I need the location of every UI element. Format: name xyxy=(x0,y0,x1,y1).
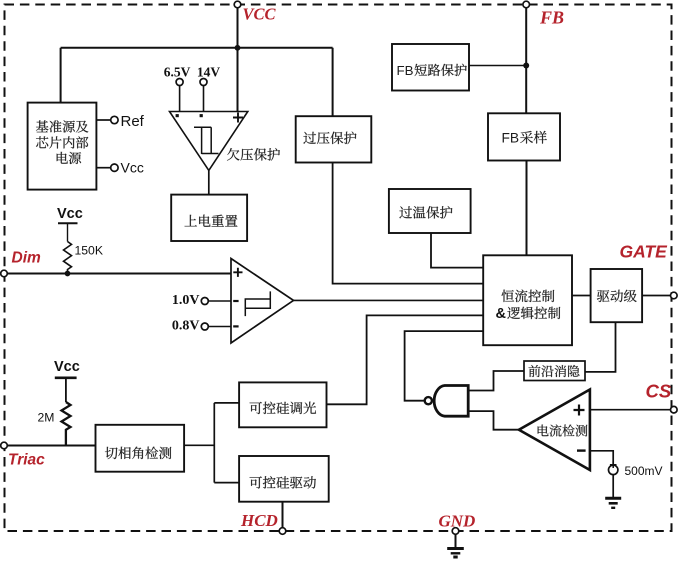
wire driver to blanking xyxy=(585,322,616,372)
pin FB xyxy=(523,1,530,8)
svg-text:&: & xyxy=(496,306,507,322)
block FB sampling xyxy=(488,113,560,160)
text leading edge blanking xyxy=(529,365,541,377)
block overvoltage protection xyxy=(296,116,372,162)
wire OTP to control xyxy=(431,233,483,268)
mark dim minus2 xyxy=(233,325,238,327)
wire GND stem xyxy=(455,534,457,547)
wire Vcc stub xyxy=(96,167,110,169)
junction Dim resistor xyxy=(65,271,71,277)
svg-text:FB: FB xyxy=(539,8,564,28)
svg-text:Vcc: Vcc xyxy=(57,206,83,222)
mark current sense minus xyxy=(577,449,586,451)
block constant-current and logic control xyxy=(483,255,572,345)
block driver stage xyxy=(591,269,643,322)
wire comparator minus to reference xyxy=(590,451,613,465)
svg-text:1.0V: 1.0V xyxy=(172,293,200,308)
wire 150K top xyxy=(67,223,69,241)
mark current sense plus xyxy=(574,405,585,416)
resistor R2 2M xyxy=(62,402,71,446)
text triac drive xyxy=(250,476,262,488)
svg-text:GATE: GATE xyxy=(620,242,669,262)
mark dim minus1 xyxy=(233,300,238,302)
svg-text:FB: FB xyxy=(397,63,414,78)
wire UVLO output xyxy=(208,170,210,194)
svg-text:Ref: Ref xyxy=(121,113,145,130)
comparator dim detection xyxy=(231,259,294,344)
symbol UVLO hysteresis xyxy=(194,127,219,154)
terminal 6.5V xyxy=(176,79,183,86)
pin Dim xyxy=(1,270,8,277)
svg-text:0.8V: 0.8V xyxy=(172,319,200,334)
terminal 1.0V xyxy=(201,298,208,305)
ground reference symbol xyxy=(605,497,621,500)
text overvoltage protection xyxy=(303,132,316,144)
mark UVLO input dot 1 xyxy=(176,114,179,117)
pin GATE xyxy=(671,292,678,299)
wire NAND output to control xyxy=(405,331,484,401)
wire 6.5V stem xyxy=(179,86,181,112)
wire comparator to CS xyxy=(590,409,671,411)
wire OVP to control xyxy=(333,163,484,284)
svg-text:GND: GND xyxy=(439,512,476,531)
resistor R1 150K xyxy=(64,242,72,274)
ground GND symbol xyxy=(447,547,464,550)
mark UVLO input dot 2 xyxy=(200,114,203,117)
wire Ref stub xyxy=(96,119,110,121)
pin CS xyxy=(671,406,678,413)
wire control to driver xyxy=(572,295,591,297)
wire blanking to NAND xyxy=(468,371,524,391)
wire driver to GATE xyxy=(642,295,670,297)
comparator U2 undervoltage lockout xyxy=(170,112,248,171)
block phase angle detection xyxy=(96,425,185,472)
wire 0.8V stub xyxy=(208,326,231,328)
supply bar 150K xyxy=(58,222,78,224)
wire Triac line xyxy=(7,445,95,447)
svg-text:2M: 2M xyxy=(38,411,55,425)
pin VCC xyxy=(234,1,241,8)
terminal Vcc xyxy=(111,164,118,171)
wire FB vertical xyxy=(525,5,527,114)
block power-on reset xyxy=(171,195,247,241)
bubble NAND output xyxy=(425,397,432,404)
wire source to ground xyxy=(612,475,614,498)
svg-text:Vcc: Vcc xyxy=(54,359,80,375)
mark dim plus input xyxy=(233,268,242,277)
svg-text:VCC: VCC xyxy=(243,5,277,24)
wire phase detect output xyxy=(184,444,214,446)
svg-text:Triac: Triac xyxy=(8,452,45,469)
gate NAND current logic xyxy=(434,386,468,417)
text reference source line1 xyxy=(36,120,48,132)
junction FB xyxy=(523,63,529,69)
text triac dimming xyxy=(250,402,262,414)
svg-text:500mV: 500mV xyxy=(625,464,663,478)
text driver stage xyxy=(597,290,609,302)
wire current sense to NAND xyxy=(468,411,519,430)
block leading edge blanking xyxy=(524,361,585,381)
wire FB sample to control xyxy=(526,161,528,256)
text overtemperature protection xyxy=(399,206,412,218)
block triac drive xyxy=(239,456,329,502)
mark UVLO plus input xyxy=(233,113,243,123)
symbol dim hysteresis xyxy=(245,291,270,316)
wire VCC vertical xyxy=(237,5,239,112)
text current detection xyxy=(538,425,549,437)
wire FB short-circuit link xyxy=(469,65,526,67)
svg-text:FB: FB xyxy=(502,131,520,146)
terminal 0.8V xyxy=(201,323,208,330)
wire dim comparator output xyxy=(294,299,484,301)
wire 14V stem xyxy=(203,86,205,112)
svg-text:150K: 150K xyxy=(75,244,103,258)
block overtemperature protection xyxy=(389,189,471,233)
wire rail to OVP block xyxy=(332,48,334,116)
text reference source line3 xyxy=(57,152,68,164)
text control line1 xyxy=(502,290,515,302)
text reference source line2 xyxy=(36,136,48,148)
block FB short protection xyxy=(392,44,469,91)
wire 2M top xyxy=(65,378,67,402)
terminal Ref xyxy=(111,116,118,123)
svg-text:6.5V: 6.5V xyxy=(164,65,191,80)
wire branch vertical xyxy=(213,403,215,483)
pin GND xyxy=(452,528,459,535)
block triac dimming xyxy=(239,382,326,427)
label UVLO xyxy=(227,148,239,160)
wire Dim line xyxy=(7,273,231,275)
wire drive to HCD xyxy=(282,502,284,528)
wire 1.0V stub xyxy=(208,300,231,302)
comparator current detection xyxy=(519,390,590,471)
terminal 14V xyxy=(200,79,207,86)
svg-text:Dim: Dim xyxy=(12,250,42,267)
source V1 500mV reference xyxy=(609,465,618,474)
pin Triac xyxy=(1,442,8,449)
wire rail to power block xyxy=(60,48,62,104)
svg-text:Vcc: Vcc xyxy=(121,160,144,176)
wire branch to drive xyxy=(214,482,239,484)
wire dimming to control xyxy=(327,315,484,404)
junction VCC rail xyxy=(235,45,241,51)
wire VCC horizontal rail xyxy=(61,47,333,49)
text power-on reset xyxy=(185,215,197,227)
svg-text:HCD: HCD xyxy=(240,511,278,530)
block U1 reference source and internal supply xyxy=(28,103,97,190)
svg-text:CS: CS xyxy=(646,381,672,402)
text phase angle detection xyxy=(105,447,118,459)
pin HCD xyxy=(279,528,286,535)
svg-text:14V: 14V xyxy=(197,65,221,80)
supply bar 2M xyxy=(55,376,77,379)
wire branch to dimming xyxy=(214,402,239,404)
